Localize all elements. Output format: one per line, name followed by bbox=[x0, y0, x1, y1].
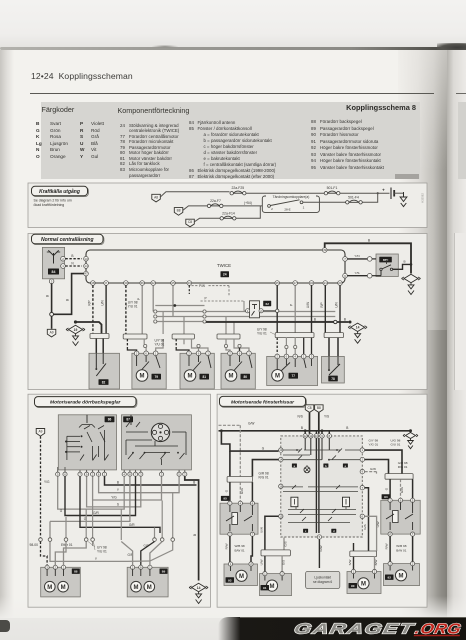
section frame: Kraftkälla utgång bbox=[28, 183, 427, 228]
svg-text:C8: C8 bbox=[188, 220, 192, 224]
svg-text:Y/N: Y/N bbox=[354, 254, 359, 258]
wires switch 94 to motor 92 bbox=[385, 536, 413, 562]
svg-text:M: M bbox=[61, 585, 66, 591]
wire B antenna ground bbox=[46, 284, 52, 313]
page top edge shadow line bbox=[0, 47, 466, 50]
wire P grey pin17 to bar bbox=[290, 285, 296, 332]
connector tag A8 bbox=[152, 194, 161, 202]
svg-text:81: 81 bbox=[202, 375, 206, 379]
wire console pin 1 right bbox=[365, 450, 402, 474]
ground symbol (window rail) bbox=[403, 431, 418, 449]
svg-text:P: P bbox=[205, 296, 207, 300]
svg-text:M: M bbox=[140, 374, 145, 380]
section label: Motoriserade fönsterhissar bbox=[220, 396, 307, 407]
svg-text:84: 84 bbox=[52, 270, 56, 274]
console pin 13 (left) bbox=[279, 448, 283, 452]
svg-text:G/W: G/W bbox=[319, 545, 323, 551]
svg-text:501-F4: 501-F4 bbox=[348, 196, 359, 200]
svg-text:78: 78 bbox=[331, 377, 335, 381]
svg-text:80: 80 bbox=[243, 375, 247, 379]
svg-text:14: 14 bbox=[197, 586, 201, 590]
ground symbol (power rail) bbox=[400, 192, 407, 207]
console switch module a bbox=[291, 497, 298, 507]
wire U/Y98-Y/U01 (dashed) pin30 to bar bbox=[125, 285, 127, 334]
connector tag B8 (windows) bbox=[315, 405, 324, 413]
wire G/W console pin 9 right (dashed) bbox=[365, 467, 377, 474]
svg-text:B: B bbox=[301, 426, 303, 430]
label 98-00 bbox=[30, 543, 39, 547]
antenna unit 84 (Fjärrkontroll antenn) bbox=[42, 247, 64, 278]
wire R/P (dashed) pin48 to connector bar bbox=[87, 285, 93, 333]
svg-text:13: 13 bbox=[279, 448, 283, 452]
thick ground rail B middle bbox=[206, 317, 352, 323]
svg-text:Kraftkälla utgång: Kraftkälla utgång bbox=[39, 188, 80, 195]
svg-text:G/R: G/R bbox=[93, 511, 99, 515]
wire R/P pin21 to bar bbox=[320, 285, 325, 332]
rear door motor unit 81 bbox=[180, 353, 214, 389]
svg-text:13: 13 bbox=[84, 257, 88, 261]
wire ignition switch to fuse 501-F4 bbox=[303, 201, 346, 203]
rear window switch 95 bbox=[220, 503, 258, 534]
wire B from TWICE pin 47 to junction bbox=[54, 274, 85, 315]
svg-text:22: 22 bbox=[152, 281, 156, 285]
console pin 11 (top) bbox=[309, 434, 313, 438]
svg-text:U/W: U/W bbox=[259, 559, 263, 565]
connector bar L1 bbox=[227, 477, 252, 483]
svg-text:36: 36 bbox=[141, 281, 145, 285]
svg-text:P: P bbox=[137, 298, 141, 300]
ground symbol right of switch 85F bbox=[402, 274, 421, 294]
TWICE pin 22 (bottom) bbox=[151, 281, 156, 286]
console switch module b bbox=[343, 497, 350, 507]
section frame: Motoriserade fönsterhissar bbox=[217, 394, 427, 607]
label (+54) bbox=[244, 201, 252, 205]
svg-text:94: 94 bbox=[384, 495, 388, 499]
wire pin25 down through junction to bar bbox=[276, 285, 278, 332]
TWICE pin 48 (bottom) bbox=[91, 281, 96, 286]
pins of motor 77 bbox=[275, 354, 314, 359]
svg-text:Tändningsomkopplare(a): Tändningsomkopplare(a) bbox=[273, 195, 310, 199]
TWICE pin 8 (bottom) bbox=[104, 281, 109, 286]
wires bar6 to microswitch 78 bbox=[329, 338, 338, 357]
ground point 19 (tank lock) bbox=[66, 325, 85, 345]
svg-text:95: 95 bbox=[223, 497, 227, 501]
label W/B 98 B/W 01 (92) bbox=[396, 544, 406, 552]
TWICE pin 6 (right) bbox=[343, 273, 348, 278]
tag 95 bbox=[221, 496, 230, 501]
svg-text:B: B bbox=[117, 481, 119, 485]
svg-text:M: M bbox=[239, 574, 244, 580]
scanner background above page bbox=[0, 0, 466, 48]
svg-text:30: 30 bbox=[124, 281, 128, 285]
svg-text:89: 89 bbox=[162, 570, 166, 574]
svg-text:B: B bbox=[66, 299, 70, 301]
svg-text:Y/S: Y/S bbox=[324, 414, 329, 418]
wire F25 to battery node bbox=[246, 192, 324, 194]
svg-text:G/R: G/R bbox=[144, 544, 150, 548]
switch 87 internal contacts bbox=[126, 415, 186, 465]
svg-text:B: B bbox=[193, 534, 197, 536]
svg-text:Y/U 01: Y/U 01 bbox=[257, 332, 267, 336]
svg-text:22a-F25: 22a-F25 bbox=[231, 186, 244, 190]
svg-text:33: 33 bbox=[188, 281, 192, 285]
svg-text:G/S: G/S bbox=[363, 524, 367, 529]
door motor unit 79 bbox=[132, 353, 166, 389]
svg-text:G/U 01: G/U 01 bbox=[391, 443, 401, 447]
TWICE pin 39 (top) bbox=[322, 248, 327, 253]
fuse 501-F1 bbox=[324, 186, 340, 195]
svg-text:90: 90 bbox=[351, 584, 355, 588]
svg-text:85F: 85F bbox=[383, 258, 388, 262]
window/door contact console 85 (dashed) bbox=[281, 436, 363, 537]
svg-text:A8: A8 bbox=[154, 195, 158, 199]
section label: Kraftkälla utgång bbox=[32, 186, 89, 196]
wire G to console pin 13 bbox=[220, 429, 278, 451]
wires bar R2 to motor 90 bbox=[348, 557, 378, 570]
svg-text:Motoriserade dörrbackspeglar: Motoriserade dörrbackspeglar bbox=[50, 400, 121, 406]
stubs and pins of switch 86 bbox=[56, 467, 107, 476]
pins of motor 91 bbox=[263, 572, 284, 576]
inline connector bar 4 bbox=[217, 334, 240, 339]
svg-text:ökad kraftfördelning: ökad kraftfördelning bbox=[34, 203, 65, 207]
svg-text:B: B bbox=[344, 317, 346, 321]
driver window motor 90 bbox=[347, 572, 381, 594]
wires bar1 to tank lock 82 bbox=[96, 339, 103, 357]
wire B to ground 14 bbox=[185, 476, 199, 580]
TWICE pin 7 (right) bbox=[343, 257, 348, 262]
TWICE pin 47 bbox=[84, 271, 89, 276]
wire P (grey) pin36 to bar bbox=[137, 285, 142, 334]
fuse 22a-F14 bbox=[220, 212, 236, 220]
mirror switch unit 87 bbox=[122, 415, 192, 470]
svg-text:24: 24 bbox=[223, 273, 227, 277]
svg-text:S: S bbox=[117, 502, 119, 506]
console interior lamp bbox=[304, 467, 310, 473]
label G/R 98 R/G 01 (left) bbox=[259, 471, 269, 479]
fuse 22a-F7 bbox=[207, 199, 223, 207]
svg-text:Ljuskontakt: Ljuskontakt bbox=[314, 575, 331, 579]
wires console pin 15 to bar L2 bbox=[259, 516, 287, 550]
svg-text:82: 82 bbox=[102, 380, 106, 384]
console pin 1 (right) bbox=[360, 448, 364, 452]
label Efter 01 bbox=[61, 543, 73, 547]
label U/G 98 G/U 01 bbox=[391, 439, 401, 447]
TWICE pin 20 (bottom) bbox=[338, 281, 343, 286]
section frame: Normal centrallåsning bbox=[28, 234, 427, 390]
svg-text:Y/U 01: Y/U 01 bbox=[128, 304, 138, 308]
svg-text:B8: B8 bbox=[317, 406, 321, 410]
svg-text:M: M bbox=[275, 374, 280, 380]
svg-text:B/W: B/W bbox=[374, 560, 378, 566]
TWICE pin 32 (bottom) bbox=[309, 281, 314, 286]
svg-text:M: M bbox=[147, 585, 152, 591]
svg-text:20: 20 bbox=[338, 281, 342, 285]
grey wire pin45 down to bus bbox=[172, 285, 174, 316]
pins of switch 95 bbox=[228, 501, 255, 536]
svg-text:M: M bbox=[134, 585, 139, 591]
svg-text:B: B bbox=[314, 317, 316, 321]
tag 94 bbox=[382, 494, 391, 499]
console pin 10 (top) bbox=[314, 434, 318, 438]
section label: Motoriserade dörrbackspeglar bbox=[35, 397, 137, 408]
svg-text:GARAGET: GARAGET bbox=[292, 621, 415, 637]
svg-text:B: B bbox=[193, 481, 195, 485]
dashed feed wire from tag A9 bbox=[41, 436, 51, 537]
grey drops from bus to connector bars bbox=[163, 312, 234, 335]
svg-text:22a-F14: 22a-F14 bbox=[222, 212, 235, 216]
junction connector on driver-lock wire bbox=[276, 309, 279, 312]
rear door motor unit 80 bbox=[221, 353, 255, 389]
svg-text:TWICE: TWICE bbox=[217, 263, 231, 268]
svg-text:U/W: U/W bbox=[259, 527, 263, 533]
pin 2 on antenna bbox=[61, 256, 66, 261]
TWICE pin 13 bbox=[84, 256, 89, 261]
TWICE unit 24 bbox=[86, 250, 345, 283]
pin 3 on antenna bbox=[49, 279, 54, 284]
wires bar2 to motor 79 bbox=[127, 339, 163, 351]
TWICE pin 21 (bottom) bbox=[323, 281, 328, 286]
svg-text:98-00: 98-00 bbox=[30, 543, 39, 547]
dashed wire G/W top left bbox=[219, 421, 255, 476]
grey bus wire y=311.5 bbox=[154, 310, 336, 313]
dashed grey wire P to tank lock switch bbox=[201, 296, 247, 310]
pin 1 on antenna bbox=[61, 264, 66, 269]
tank lock unit 82 bbox=[89, 353, 120, 389]
grey bus wire y=316.5 bbox=[154, 315, 336, 318]
dashed wire N antenna to TWICE pin 14 bbox=[65, 262, 82, 267]
pins of switch 94 bbox=[388, 498, 415, 536]
Ljuskontakt reference box bbox=[306, 571, 340, 588]
driver mirror assembly 88 bbox=[41, 567, 81, 597]
right gutter shading + next page bbox=[398, 50, 447, 618]
ground point 14 (central locking) bbox=[348, 323, 367, 343]
wire F1 to battery bbox=[340, 192, 390, 194]
svg-text:U/N: U/N bbox=[335, 302, 339, 308]
connector bar R2 bbox=[350, 551, 377, 557]
svg-text:2: 2 bbox=[271, 207, 273, 211]
svg-text:R/P: R/P bbox=[320, 302, 324, 307]
wire F7 to ignition switch bbox=[223, 205, 262, 207]
svg-text:48: 48 bbox=[91, 281, 95, 285]
svg-text:U/W: U/W bbox=[376, 521, 380, 527]
wire Y/N TWICE pin7 to switch bbox=[347, 254, 367, 259]
inline connector 17 bbox=[367, 273, 372, 278]
console pin 6 (right) bbox=[360, 514, 364, 518]
wire Y/G rail bbox=[93, 476, 162, 500]
wire G/R lower rail bbox=[80, 476, 160, 533]
ignition switch Tändningsomkopplare bbox=[262, 194, 319, 212]
svg-text:P: P bbox=[290, 304, 294, 306]
pin 2 of switch 62 bbox=[259, 309, 263, 313]
svg-text:Y/S: Y/S bbox=[355, 271, 360, 275]
section label: Normal centrallåsning bbox=[32, 234, 104, 244]
fuse 501-F4 bbox=[346, 196, 363, 204]
wires into mirror motor 89 bbox=[93, 542, 173, 567]
svg-text:B8: B8 bbox=[177, 209, 181, 213]
svg-text:R/G 01: R/G 01 bbox=[398, 465, 408, 469]
wire G down from pin13 path to bar L1 bbox=[229, 451, 231, 476]
driver door microswitch 78 bbox=[322, 356, 345, 383]
svg-text:17: 17 bbox=[294, 281, 298, 285]
svg-text:77: 77 bbox=[291, 374, 295, 378]
junction connector on ground wire bbox=[50, 312, 54, 316]
svg-text:B/W 01: B/W 01 bbox=[396, 548, 406, 552]
fuse 22a-F25 bbox=[230, 186, 246, 195]
svg-text:B: B bbox=[46, 295, 50, 297]
wires into mirror motor 88 bbox=[41, 542, 87, 567]
label G/R (mirror low) bbox=[128, 553, 134, 557]
console pin 9 (top) bbox=[320, 434, 324, 438]
wire U/N pin8 to connector bar bbox=[101, 285, 107, 333]
switch 87 joystick symbol bbox=[151, 423, 169, 441]
year split connectors row bbox=[39, 538, 175, 542]
svg-text:14: 14 bbox=[279, 458, 283, 462]
wire U/N pin20 to bar bbox=[335, 285, 340, 332]
svg-text:M: M bbox=[229, 374, 234, 380]
TWICE pin 45 (bottom) bbox=[171, 281, 176, 286]
wires bar L2 to motor 91 bbox=[259, 556, 285, 572]
label U/Y 98 Y/U 01 at bar5 bbox=[257, 328, 275, 336]
svg-text:M: M bbox=[361, 582, 366, 588]
svg-text:G/W: G/W bbox=[240, 488, 244, 494]
ground tag A9 bbox=[47, 329, 56, 337]
svg-text:R/W: R/W bbox=[224, 543, 228, 549]
svg-text:G/W: G/W bbox=[248, 421, 254, 425]
svg-text:R/W: R/W bbox=[385, 543, 389, 549]
wires console pins 7/6 to bar R2 bbox=[363, 488, 380, 551]
wires bar L1 to switch 95 bbox=[224, 482, 252, 501]
svg-text:28-E: 28-E bbox=[284, 208, 290, 212]
svg-text:21: 21 bbox=[324, 281, 328, 285]
grey bus wire with junction dot bbox=[155, 304, 204, 307]
TWICE pin 17 (bottom) bbox=[293, 281, 298, 286]
svg-text:92: 92 bbox=[388, 576, 392, 580]
svg-text:G/S: G/S bbox=[284, 541, 288, 546]
inline connector bar 1 bbox=[90, 334, 109, 339]
svg-text:39: 39 bbox=[323, 248, 327, 252]
svg-text:(+54): (+54) bbox=[244, 201, 252, 205]
inline connector 16 bbox=[367, 257, 372, 262]
connector tag C8 (windows) bbox=[305, 405, 314, 413]
rear window motor 92 bbox=[384, 564, 420, 586]
connector bar L2 bbox=[261, 550, 290, 556]
pins of motor 93 bbox=[228, 562, 253, 566]
pins of motor 81 bbox=[187, 351, 211, 356]
TWICE pin 25 (bottom) bbox=[275, 281, 280, 286]
rear window motor 93 bbox=[224, 564, 258, 586]
svg-text:10: 10 bbox=[315, 434, 319, 438]
console pin 9 (right) bbox=[360, 469, 364, 473]
passenger window motor 91 bbox=[260, 574, 292, 596]
wire F14 up to ignition feed bbox=[236, 206, 260, 218]
svg-text:88: 88 bbox=[74, 570, 78, 574]
left page edge shading bbox=[0, 50, 14, 618]
console pin 14 (left) bbox=[279, 457, 283, 461]
svg-text:G/W: G/W bbox=[370, 467, 376, 471]
connector tag B8 bbox=[174, 208, 183, 216]
TWICE pin 36 (bottom) bbox=[140, 281, 145, 286]
svg-text:25: 25 bbox=[276, 281, 280, 285]
svg-text:U/N: U/N bbox=[101, 300, 105, 306]
label G/R 98 R/G 01 (right) bbox=[398, 461, 408, 469]
bottom page fade bbox=[0, 596, 466, 640]
svg-text:G/R: G/R bbox=[129, 523, 135, 527]
wire G left rail bbox=[58, 476, 125, 512]
console pin 7 (right) bbox=[360, 486, 364, 490]
console pin 12 (top) bbox=[303, 434, 307, 438]
inline connector bar 2 bbox=[123, 334, 147, 339]
wire F4 up to battery node bbox=[362, 193, 377, 202]
svg-text:79: 79 bbox=[154, 375, 158, 379]
wire Y rail bbox=[99, 476, 180, 492]
svg-text:H33582: H33582 bbox=[421, 193, 425, 203]
svg-text:Y/G: Y/G bbox=[111, 496, 117, 500]
wire C8 to fuse F14 bbox=[194, 218, 220, 222]
svg-text:22a-F7: 22a-F7 bbox=[210, 199, 221, 203]
svg-text:14: 14 bbox=[84, 264, 88, 268]
svg-text:M: M bbox=[47, 585, 52, 591]
svg-text:45: 45 bbox=[171, 281, 175, 285]
grey wire pin22 down to bus bbox=[152, 285, 154, 311]
label G/Y 98 Y/G 01 bbox=[369, 439, 379, 447]
svg-text:19: 19 bbox=[74, 328, 78, 332]
console pin 15 (left) bbox=[279, 514, 283, 518]
wire U/W pin32 to bar bbox=[306, 285, 312, 332]
svg-text:P/W: P/W bbox=[199, 284, 205, 288]
pins of motor 90 bbox=[351, 569, 376, 573]
svg-text:A9: A9 bbox=[38, 430, 42, 434]
pins of motor 92 bbox=[388, 562, 415, 566]
grey bus wire y=321.5 bbox=[154, 320, 336, 323]
console pin 2 (right) bbox=[360, 457, 364, 461]
garaget.org watermark strip bbox=[218, 617, 466, 640]
legend grey box bbox=[41, 102, 420, 180]
svg-text:B: B bbox=[71, 254, 73, 258]
svg-text:16: 16 bbox=[279, 484, 283, 488]
inline connector bar 5 bbox=[275, 333, 314, 338]
svg-text:11: 11 bbox=[309, 434, 312, 438]
svg-text:12: 12 bbox=[304, 434, 308, 438]
pins of mirror 89 bbox=[131, 565, 152, 569]
pins of motor 80 bbox=[228, 351, 252, 356]
central locking switch 85F bbox=[372, 254, 398, 277]
svg-text:1: 1 bbox=[303, 206, 305, 210]
wires bar3 to motor 81 bbox=[176, 339, 208, 351]
svg-text:86: 86 bbox=[108, 418, 112, 422]
driver door lock motor 77 bbox=[267, 356, 318, 385]
mirror switch unit 86 bbox=[58, 415, 116, 470]
svg-text:14: 14 bbox=[356, 326, 360, 330]
TWICE pin 33 (bottom) bbox=[187, 281, 192, 286]
stub wires rail to console pins bbox=[305, 431, 329, 434]
wire to ground tag bbox=[51, 316, 53, 329]
tag 62 bbox=[263, 301, 271, 306]
svg-text:R/G 01: R/G 01 bbox=[259, 476, 269, 480]
wire B switch 85F to ground bbox=[393, 260, 413, 270]
svg-text:B: B bbox=[346, 426, 348, 430]
wire Y/S TWICE pin6 to switch bbox=[347, 271, 367, 276]
svg-text:B/W 01: B/W 01 bbox=[235, 548, 245, 552]
wires bar R1 to switch 94 bbox=[385, 479, 413, 498]
tank lock microswitch 62 bbox=[250, 301, 260, 318]
wire to bar R2 from left bbox=[353, 543, 355, 551]
wire A8 to fuse F25 bbox=[160, 192, 229, 197]
wire G/R rail bbox=[65, 476, 136, 515]
svg-text:+: + bbox=[382, 187, 385, 192]
console mini tags a-f bbox=[292, 464, 348, 534]
svg-text:U/W: U/W bbox=[306, 302, 310, 308]
inline connector bar 6 bbox=[324, 333, 343, 338]
